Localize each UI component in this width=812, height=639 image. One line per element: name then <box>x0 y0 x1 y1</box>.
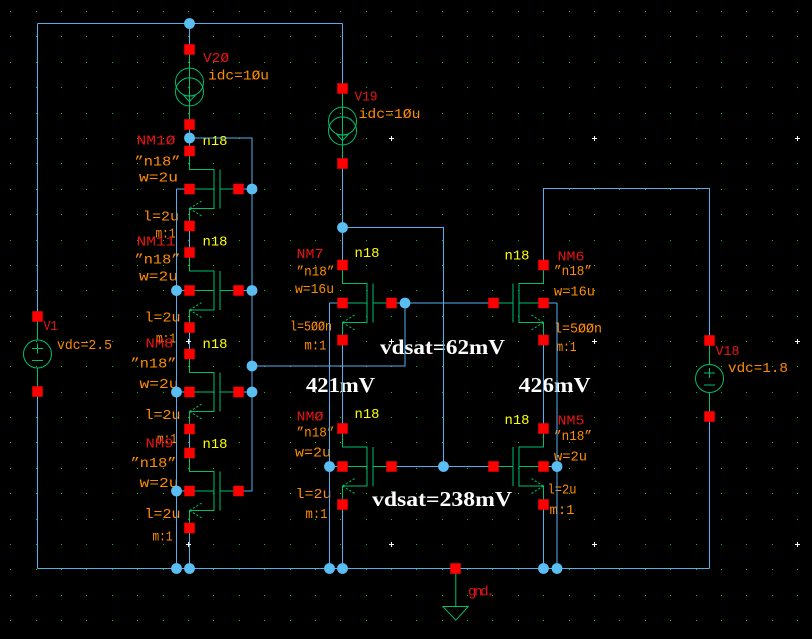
svg-text:w=2u: w=2u <box>295 445 331 461</box>
svg-text:”n18”: ”n18” <box>554 429 592 445</box>
pin NM11 drain <box>184 247 195 258</box>
junction NM7 gate node <box>400 298 411 309</box>
pin V20 plus <box>184 44 195 55</box>
wire NM11 gate stub <box>239 290 253 292</box>
svg-text:”n18”: ”n18” <box>131 356 177 372</box>
current source V20 <box>176 55 204 120</box>
pin NM7 bulk <box>337 298 348 309</box>
pin gnd <box>450 563 461 574</box>
svg-text:NM7: NM7 <box>297 247 324 263</box>
pin NM8 drain <box>184 349 195 360</box>
pin NM9 bulk <box>184 486 195 497</box>
svg-text:w=2u: w=2u <box>139 269 178 285</box>
junction NM8 bulk <box>171 387 182 398</box>
pin V19 minus <box>337 158 348 169</box>
wire NM5 source to rail <box>543 505 545 569</box>
pin NM0 drain <box>337 423 348 434</box>
svg-text:l=2u: l=2u <box>145 507 181 523</box>
svg-text:idc=1Øu: idc=1Øu <box>208 68 269 84</box>
wire NM6 bulk stub <box>544 302 558 304</box>
wire V19 top <box>342 24 344 89</box>
voltage source V18 <box>696 346 724 412</box>
svg-text:”n18”: ”n18” <box>135 252 181 268</box>
pin NM10 drain <box>184 146 195 157</box>
pin NM8 bulk <box>184 387 195 398</box>
junction node vdd top <box>184 18 195 29</box>
pin NM10 gate <box>233 184 244 195</box>
junction lower gate tap <box>438 461 449 472</box>
wire V20 to NM10 drain <box>189 125 191 157</box>
junction rail bulk left <box>171 563 182 574</box>
current source V19 <box>329 94 357 159</box>
wire V20 top stub <box>189 24 191 50</box>
svg-text:”n18”: ”n18” <box>297 264 335 280</box>
wire left rail lower <box>37 387 39 569</box>
transistor NM7 <box>343 270 392 336</box>
wire NM11 bulk stub <box>177 290 190 292</box>
wire NM11 source to NM8 drain <box>189 328 191 355</box>
svg-text:NM9: NM9 <box>146 436 174 452</box>
wire bias tap to lower gates <box>343 228 444 467</box>
junction NM9 bulk <box>171 486 182 497</box>
svg-text:m:1: m:1 <box>306 507 328 523</box>
junction rail NM9 source <box>184 563 195 574</box>
svg-text:NM11: NM11 <box>137 235 176 251</box>
junction rail NM0 source <box>337 563 348 574</box>
transistor NM0 <box>343 434 392 500</box>
pin NM9 drain <box>184 448 195 459</box>
svg-text:n18: n18 <box>203 235 228 251</box>
svg-text:m:1: m:1 <box>153 530 173 546</box>
pin NM6 bulk <box>538 298 549 309</box>
svg-text:V18: V18 <box>716 344 740 360</box>
wire bottom ground rail <box>38 568 710 570</box>
wire NM8 gate stub <box>239 391 253 393</box>
transistor NM11 <box>190 258 239 324</box>
svg-text:l=5ØØn: l=5ØØn <box>290 320 332 336</box>
junction NM5 bulk <box>552 461 563 472</box>
junction NM11 gate <box>247 285 258 296</box>
transistor NM10 <box>190 156 239 222</box>
pin V1 plus <box>32 311 43 322</box>
junction NM0 bulk <box>324 461 335 472</box>
pin NM6 source <box>538 335 549 346</box>
transistor NM5 <box>495 434 544 500</box>
pin NM11 source <box>184 322 195 333</box>
svg-text:”n18”: ”n18” <box>554 264 592 280</box>
junction gate tie tap <box>247 361 258 372</box>
wire NM8 source to NM9 drain <box>189 429 191 453</box>
wire NM9 source to rail <box>189 528 191 569</box>
pin NM10 source <box>184 221 195 232</box>
pin NM8 source <box>184 424 195 435</box>
svg-text:w=2u: w=2u <box>139 171 178 187</box>
pin NM7 drain <box>337 260 348 271</box>
junction rail NM5 source <box>538 563 549 574</box>
pin NM11 gate <box>233 285 244 296</box>
wire NM10 source to NM11 drain <box>189 226 191 253</box>
svg-text:vdsat=62mV: vdsat=62mV <box>380 335 505 359</box>
pin NM7 source <box>337 335 348 346</box>
junction rail bulk right <box>552 563 563 574</box>
svg-text:m:1: m:1 <box>550 503 575 519</box>
voltage source V1 <box>24 322 52 387</box>
wire NM9 bulk stub <box>177 490 190 492</box>
pin NM10 bulk <box>184 184 195 195</box>
wire NM5 bulk stub <box>544 466 558 468</box>
svg-text:n18: n18 <box>355 246 380 262</box>
junction rail bulk middle <box>324 563 335 574</box>
svg-text:l=2u: l=2u <box>145 311 181 327</box>
wire NM8 bulk stub <box>177 391 190 393</box>
pin NM6 gate <box>488 298 499 309</box>
pin NM9 gate <box>233 486 244 497</box>
junction V19 bias node <box>337 222 348 233</box>
wire V19 to NM7 drain <box>342 164 344 266</box>
svg-text:V1: V1 <box>44 319 58 335</box>
svg-text:m:1: m:1 <box>305 338 327 354</box>
svg-text:idc=1Øu: idc=1Øu <box>359 107 421 123</box>
svg-text:421mV: 421mV <box>306 373 375 397</box>
pin V19 plus <box>337 83 348 94</box>
wire NM7 gate to NM6 gate <box>392 302 494 304</box>
wire n18 node to gate tie <box>190 138 253 189</box>
pin NM11 bulk <box>184 285 195 296</box>
wire right bulk column <box>556 303 558 569</box>
svg-text:NM6: NM6 <box>558 249 585 265</box>
pin NM9 source <box>184 523 195 534</box>
pin NM0 bulk <box>337 461 348 472</box>
svg-text:NM5: NM5 <box>558 414 585 430</box>
pin NM8 gate <box>233 387 244 398</box>
wire NM0 source to rail <box>342 505 344 569</box>
wire left rail upper <box>37 24 39 322</box>
svg-text:n18: n18 <box>203 134 228 150</box>
wire top rail vdd2.5 <box>38 23 343 25</box>
svg-text:n18: n18 <box>355 407 380 423</box>
svg-text:gnd.: gnd. <box>468 584 492 600</box>
svg-text:l=2u: l=2u <box>145 408 181 424</box>
junction NM8 gate <box>247 387 258 398</box>
svg-text:n18: n18 <box>505 248 530 264</box>
wire NM6 source to NM5 drain <box>543 340 545 429</box>
wire gate tie column <box>239 189 253 491</box>
svg-text:”n18”: ”n18” <box>131 456 177 472</box>
wire NM0 bulk stub <box>330 466 343 468</box>
pin NM7 gate <box>386 298 397 309</box>
transistor NM6 <box>495 270 544 336</box>
svg-text:l=2u: l=2u <box>296 487 332 503</box>
junction NM10 gate <box>247 184 258 195</box>
wire NM10 bulk stub <box>177 188 190 190</box>
svg-text:NMØ: NMØ <box>297 409 324 425</box>
pin NM5 source <box>538 499 549 510</box>
transistor NM8 <box>190 359 239 425</box>
wire NM7 source to NM0 drain <box>342 340 344 429</box>
wire NM7 bulk stub <box>330 302 343 304</box>
svg-text:vdc=1.8: vdc=1.8 <box>728 361 788 377</box>
svg-text:426mV: 426mV <box>519 373 591 397</box>
junction node n18 <box>184 133 195 144</box>
svg-text:”n18”: ”n18” <box>297 425 335 441</box>
wire middle bulk column <box>329 303 331 569</box>
svg-text:l=5ØØn: l=5ØØn <box>554 321 602 337</box>
svg-text:w=16u: w=16u <box>295 282 334 298</box>
svg-text:n18: n18 <box>505 413 530 429</box>
pin NM5 bulk <box>538 461 549 472</box>
pin V1 minus <box>32 386 43 397</box>
pin NM5 gate <box>488 461 499 472</box>
junction NM11 bulk <box>171 285 182 296</box>
svg-text:n18: n18 <box>203 437 228 453</box>
pin NM0 source <box>337 499 348 510</box>
pin V20 minus <box>184 119 195 130</box>
svg-text:l=2u: l=2u <box>548 483 577 499</box>
svg-text:vdsat=238mV: vdsat=238mV <box>372 487 512 511</box>
svg-text:vdc=2.5: vdc=2.5 <box>57 338 112 354</box>
svg-text:NM1Ø: NM1Ø <box>137 134 176 150</box>
svg-text:NM8: NM8 <box>146 336 174 352</box>
transistor NM9 <box>190 458 239 524</box>
pin NM6 drain <box>538 260 549 271</box>
wire NM10 gate stub <box>239 188 253 190</box>
svg-text:n18: n18 <box>203 337 228 353</box>
svg-text:”n18”: ”n18” <box>135 155 181 171</box>
wire V18 bottom to rail <box>709 412 711 569</box>
pin V18 plus <box>704 335 715 346</box>
pin NM5 drain <box>538 423 549 434</box>
wire left bulk column <box>176 189 178 569</box>
svg-text:V19: V19 <box>355 90 378 106</box>
svg-text:m:1: m:1 <box>557 340 577 356</box>
pin V18 minus <box>704 411 715 422</box>
wire NM0 gate to NM5 gate <box>392 466 494 468</box>
wire gate tie tap to NM7 NM6 gates <box>252 303 405 366</box>
svg-text:w=16u: w=16u <box>554 285 595 301</box>
svg-text:V2Ø: V2Ø <box>203 51 229 67</box>
svg-text:l=2u: l=2u <box>143 210 179 226</box>
wire NM6 drain to top <box>544 189 710 346</box>
ground symbol <box>443 574 468 621</box>
pin NM0 gate <box>386 461 397 472</box>
